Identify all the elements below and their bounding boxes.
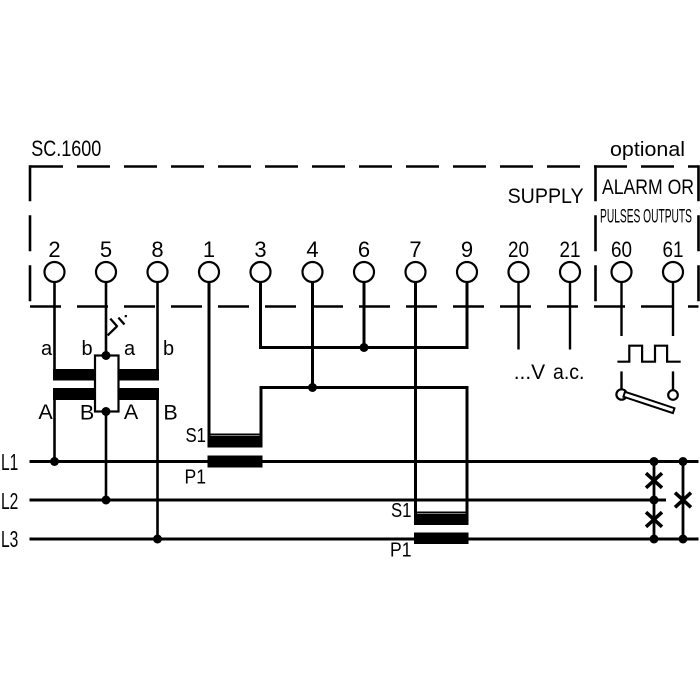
junction dot link1 L3 (650, 535, 659, 544)
terminal 8 (148, 237, 168, 282)
svg-text:61: 61 (663, 237, 684, 262)
terminal 20 (508, 237, 529, 282)
VT center connection rectangle (95, 356, 119, 412)
enclosure right dashed border (697, 165, 700, 306)
pulse waveform symbol (617, 346, 680, 362)
junction dot L1 and VT left winding (50, 457, 59, 466)
svg-text:b: b (163, 338, 174, 360)
wire bus down to CT2 S1 right end (466, 386, 469, 516)
svg-text:8: 8 (151, 237, 163, 262)
svg-text:S1: S1 (186, 425, 207, 447)
wire terminal 6 down to bus (363, 282, 366, 348)
wire terminal 8 to VT winding (156, 282, 159, 371)
CT2 secondary wire connector (414, 512, 469, 514)
svg-text:L1: L1 (1, 449, 18, 475)
svg-text:a: a (124, 338, 136, 360)
wire terminal 1 to CT1 S1 (208, 282, 211, 438)
wire bus terminal 3 to terminal 9 (259, 346, 469, 349)
junction dot VT bottom (102, 407, 111, 416)
svg-text:...V: ...V (514, 361, 546, 384)
junction dot terminal 4 on bus (308, 383, 317, 392)
VT left primary winding bar (bottom left) (53, 388, 94, 400)
svg-text:PULSES OUTPUTS: PULSES OUTPUTS (600, 206, 692, 228)
enclosure bottom dashed border (30, 305, 699, 308)
terminal 2 (45, 237, 65, 282)
junction dot link1 L1 (650, 457, 659, 466)
svg-text:SC.1600: SC.1600 (31, 136, 101, 161)
enclosure left dashed border (29, 165, 32, 306)
switch contact circle left (616, 389, 626, 399)
CT1 primary bar P1 (208, 456, 263, 468)
wire VT bottom junction down to L2 (105, 412, 108, 501)
svg-text:A: A (124, 400, 139, 424)
wire bus down to CT1 S1 right end (260, 386, 263, 438)
svg-text:P1: P1 (185, 467, 207, 489)
svg-text:ALARM OR: ALARM OR (602, 176, 694, 199)
fuse link vertical 2 (L1-L3) (682, 462, 685, 540)
junction dot link1 L2 (650, 496, 659, 505)
wire terminal 4 down (311, 282, 314, 388)
svg-text:S1: S1 (391, 500, 412, 522)
breakdown arrow symbol on terminal 5 wire (108, 315, 127, 335)
switch contact stub right (672, 371, 674, 390)
svg-text:SUPPLY: SUPPLY (508, 184, 584, 208)
fuse X mark link1 upper (646, 473, 662, 488)
line L2 (30, 499, 667, 502)
svg-text:3: 3 (254, 237, 266, 262)
wire VT right winding down to L3 (156, 399, 159, 539)
fuse X mark link2 middle (675, 493, 691, 508)
wire terminal 61 stub (672, 282, 674, 336)
svg-text:6: 6 (358, 237, 370, 262)
VT right primary winding bar (bottom right) (119, 388, 160, 400)
switch contact stub left (620, 371, 622, 389)
junction dot terminal 6 on bus (360, 343, 369, 352)
junction dot link2 L1 (679, 457, 688, 466)
terminal 7 (406, 237, 426, 282)
wire terminal 2 to VT winding (53, 282, 56, 371)
line L1 (30, 460, 699, 463)
wire terminal 3 down (259, 282, 262, 349)
terminal 21 (560, 237, 581, 282)
wire terminal 5 to VT junction (105, 282, 108, 356)
svg-text:A: A (38, 400, 53, 424)
junction dot link2 L3 (679, 535, 688, 544)
switch contact circle right (668, 390, 678, 400)
optional-section dashed separator (594, 165, 597, 306)
CT1 secondary wire connector (208, 434, 263, 436)
svg-text:P1: P1 (390, 540, 412, 562)
terminal 6 (354, 237, 374, 282)
CT2 primary bar P1 (414, 533, 469, 545)
junction dot L3 and VT right winding (153, 535, 162, 544)
svg-text:L2: L2 (1, 488, 18, 514)
junction dot L2 and VT center (102, 496, 111, 505)
VT left secondary winding bar (top left) (53, 369, 94, 381)
junction dot VT top (102, 351, 111, 360)
terminal 9 (457, 237, 477, 282)
svg-text:7: 7 (409, 237, 421, 262)
terminal 60 (611, 237, 632, 282)
terminal 1 (199, 237, 219, 282)
CT2 secondary bar S1 (414, 514, 469, 525)
wire terminal 7 to CT2 S1 (414, 282, 417, 516)
svg-text:4: 4 (306, 237, 318, 262)
svg-text:b: b (81, 338, 92, 360)
CT1 secondary bar S1 (208, 436, 263, 448)
fuse link vertical 1 (L1-L2-L3) (653, 462, 656, 540)
svg-text:9: 9 (461, 237, 473, 262)
svg-text:2: 2 (48, 237, 60, 262)
wire terminal 9 down (466, 282, 469, 349)
svg-text:a: a (41, 338, 53, 360)
svg-text:optional: optional (610, 138, 685, 161)
svg-text:5: 5 (100, 237, 112, 262)
terminal 5 (96, 237, 116, 282)
svg-text:B: B (163, 401, 177, 425)
svg-text:21: 21 (560, 237, 581, 262)
enclosure top dashed border (30, 165, 699, 168)
terminal 61 (663, 237, 684, 282)
switch blade (open) (623, 392, 674, 413)
terminal 4 (303, 237, 323, 282)
wire VT left winding down to L1 (53, 399, 56, 462)
line L3 (30, 538, 699, 541)
fuse X mark link1 lower (646, 512, 662, 527)
svg-text:L3: L3 (1, 526, 18, 552)
svg-text:60: 60 (611, 237, 632, 262)
wire terminal 20 supply stub (517, 282, 519, 350)
VT right secondary winding bar (top right) (119, 369, 160, 381)
wire terminal 21 supply stub (569, 282, 571, 350)
wire bus CT1 S2 to CT2 S2 (260, 386, 469, 389)
svg-text:a.c.: a.c. (553, 361, 585, 384)
svg-text:1: 1 (203, 237, 215, 262)
svg-text:B: B (80, 401, 94, 425)
wire terminal 60 stub (620, 282, 622, 336)
terminal 3 (251, 237, 271, 282)
svg-text:20: 20 (508, 237, 529, 262)
